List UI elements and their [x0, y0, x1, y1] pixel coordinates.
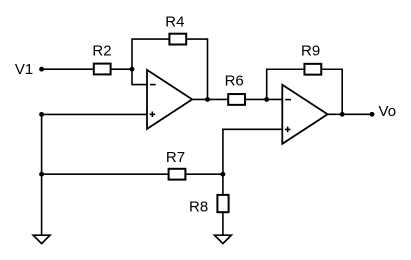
resistor R4 — [169, 34, 186, 45]
node C junction — [39, 172, 44, 177]
wire node A up to R4 — [132, 39, 170, 69]
wire R7 to node D — [185, 173, 223, 175]
resistor R7 — [169, 169, 186, 180]
op-amp U1 — [147, 70, 192, 129]
wire node A down to U1 inverting input — [132, 69, 147, 84]
node E junction U1 output — [205, 97, 210, 102]
label Vo — [379, 103, 397, 120]
wire U1 non-inverting input — [42, 113, 147, 115]
resistor R9 — [304, 64, 321, 75]
wire left rail down — [41, 114, 43, 235]
svg-text:Vo: Vo — [379, 103, 397, 120]
resistor R8 — [217, 195, 228, 212]
wire R4 to op-amp U1 output — [186, 39, 208, 99]
wire R9 to U2 output — [321, 69, 342, 114]
label R2 — [92, 43, 111, 60]
node A junction — [130, 67, 135, 72]
node B junction — [39, 112, 44, 117]
wire node F up to R9 — [267, 69, 305, 99]
op-amp U1 minus pin mark — [150, 84, 156, 86]
op-amp U1 plus pin mark — [150, 112, 156, 118]
terminal node Vo — [370, 112, 375, 117]
terminal node V1 — [39, 67, 44, 72]
svg-text:R7: R7 — [166, 149, 185, 166]
wire node D up to U2 non-inverting input — [223, 129, 282, 174]
svg-text:V1: V1 — [15, 61, 33, 78]
label V1 — [15, 61, 33, 78]
label R7 — [166, 149, 185, 166]
wire U1 output to R6 — [192, 98, 228, 100]
svg-text:R6: R6 — [225, 73, 244, 90]
wire R8 to ground — [222, 212, 224, 235]
label R4 — [165, 13, 184, 30]
wire node C to R7 — [42, 173, 169, 175]
wire V1 to R2 — [42, 68, 94, 70]
node D junction — [220, 172, 225, 177]
wire U2 output to Vo — [328, 113, 372, 115]
label R8 — [189, 199, 208, 216]
wire R6 to U2 inverting input — [245, 98, 282, 100]
resistor R2 — [94, 64, 111, 75]
svg-text:R8: R8 — [189, 199, 208, 216]
node F junction — [264, 97, 269, 102]
svg-text:R2: R2 — [92, 43, 111, 60]
resistor R6 — [228, 94, 245, 105]
ground right — [215, 235, 232, 243]
svg-text:R4: R4 — [165, 13, 184, 30]
op-amp U2 plus pin mark — [285, 127, 291, 132]
ground left — [33, 235, 50, 243]
wire node D down to R8 — [222, 174, 224, 195]
label R6 — [225, 73, 244, 90]
node G junction U2 output — [340, 112, 345, 117]
op-amp U2 minus pin mark — [285, 99, 291, 101]
op-amp U2 — [282, 85, 327, 144]
label R9 — [301, 43, 320, 60]
wire R2 to node A — [110, 68, 132, 70]
svg-text:R9: R9 — [301, 43, 320, 60]
